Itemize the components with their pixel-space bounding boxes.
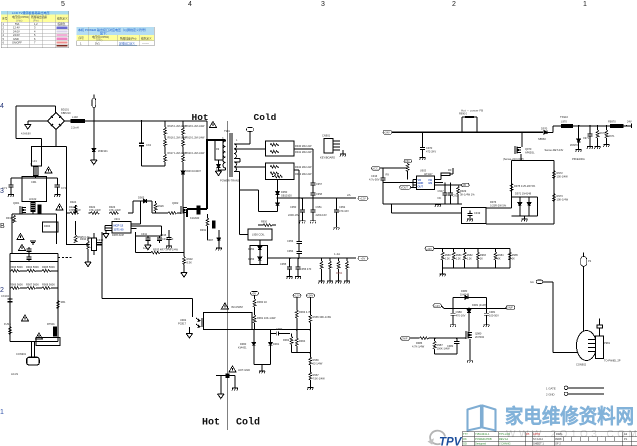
svg-text:R9: R9: [386, 173, 390, 177]
svg-text:C917: C917: [438, 189, 445, 193]
svg-text:R975 0.25-2W 5%: R975 0.25-2W 5%: [514, 184, 536, 188]
svg-text:R924: R924: [70, 200, 77, 204]
svg-text:1N4148: 1N4148: [460, 292, 470, 296]
grid number 1 left edge: [0, 409, 4, 416]
warning triangle W3: [17, 233, 24, 239]
svg-text:HOT-GND: HOT-GND: [238, 368, 250, 372]
svg-text:如下：: 如下：: [100, 31, 109, 36]
resistor R927: [386, 163, 410, 180]
svg-text:470-16V: 470-16V: [456, 314, 466, 318]
svg-text:D903 1N4007: D903 1N4007: [186, 170, 202, 173]
svg-text:R941 2R2-2W: R941 2R2-2W: [295, 150, 312, 154]
svg-text:100-1/4W: 100-1/4W: [557, 175, 569, 179]
resistor R972: [553, 160, 569, 193]
svg-text:5V1: 5V1: [95, 42, 100, 46]
wire IC right rail: [136, 226, 162, 253]
wire drain thick: [206, 121, 208, 140]
svg-text:U901: U901: [114, 218, 121, 221]
svg-text:4.7K-1/4W: 4.7K-1/4W: [412, 345, 425, 349]
svg-text:R919 1.2M-1/4W: R919 1.2M-1/4W: [186, 137, 206, 140]
svg-text:+24V: +24V: [384, 131, 390, 134]
svg-text:VOUT: VOUT: [401, 186, 409, 190]
wire pin2 left: [383, 181, 413, 183]
svg-text:2200-16V: 2200-16V: [288, 213, 300, 217]
ground GF10: [522, 216, 528, 221]
svg-text:SB10100: SB10100: [281, 194, 292, 198]
svg-text:1.2K: 1.2K: [467, 258, 472, 261]
svg-text:C958: C958: [316, 193, 323, 196]
resistor R981: [452, 249, 462, 268]
svg-text:C910: C910: [97, 238, 104, 242]
wire B+ rail: [65, 147, 67, 214]
resistor R932: [181, 209, 193, 277]
resistor R924: [70, 200, 77, 213]
svg-text:C980: C980: [456, 310, 463, 314]
svg-text:D907: D907: [207, 238, 214, 242]
separator wire: [227, 121, 229, 430]
svg-text:VCC: VCC: [373, 167, 378, 170]
svg-text:1: 1: [236, 139, 238, 142]
legend pin 2: [546, 392, 604, 397]
svg-text:GA: GA: [530, 280, 534, 284]
wire aux to 5V: [240, 186, 249, 235]
wire secondary top stub: [240, 132, 250, 145]
svg-text:APPR: APPR: [533, 432, 540, 436]
svg-text:ZD970: ZD970: [570, 143, 578, 147]
resistor R909: [4, 322, 11, 335]
warning triangle W4: [18, 244, 25, 250]
resistor R952: [327, 257, 333, 283]
transformer T901 core: [220, 129, 240, 183]
capacitor C953: [287, 239, 302, 251]
grid number 2 left edge: [0, 287, 4, 294]
resistor R983: [477, 249, 487, 268]
net label ON pill: [401, 336, 411, 340]
capacitor C960: [271, 327, 290, 336]
svg-text:ZNR101: ZNR101: [98, 149, 108, 153]
ground GF11: [340, 150, 346, 156]
svg-text:Q980: Q980: [475, 332, 482, 336]
resistor R906: [10, 283, 23, 290]
capacitor CX104: [1, 294, 13, 302]
svg-text:5: 5: [61, 1, 65, 8]
net label +12V bus: [347, 193, 368, 200]
resistor R987: [433, 337, 450, 354]
svg-text:2: 2: [452, 1, 456, 8]
svg-text:R972: R972: [557, 171, 564, 175]
svg-text:47K-1/4W: 47K-1/4W: [109, 208, 121, 212]
capacitor C951: [310, 197, 327, 223]
capacitor C915: [160, 230, 172, 248]
snubber loop2: [265, 163, 293, 179]
grid number 2 top: [452, 1, 456, 8]
net label GND pill: [400, 186, 414, 190]
net label +24V bus pill: [383, 130, 392, 134]
capacitor C918: [448, 182, 459, 204]
svg-text:L970: L970: [561, 120, 567, 124]
warning triangle W6: [35, 333, 42, 339]
wire bridge bottom to filter: [41, 130, 66, 147]
svg-text:线色定义: 线色定义: [57, 17, 68, 21]
ground GF13: [467, 339, 473, 363]
inductor L971: [608, 120, 632, 128]
junction square on separator: [216, 374, 235, 377]
svg-text:2A: 2A: [347, 193, 351, 197]
resistor R903: [10, 265, 23, 272]
svg-text:AC-IN: AC-IN: [11, 372, 18, 376]
svg-text:CM1: CM1: [31, 180, 37, 184]
svg-text:RT901: RT901: [47, 322, 55, 326]
wire 24V end: [623, 124, 632, 129]
warning triangle W7: [221, 303, 242, 309]
svg-text:P1: P1: [624, 437, 628, 441]
sense diode box: [512, 197, 538, 216]
IC U901 right pins: [131, 224, 152, 229]
transformer T901 secondary winding B: [234, 162, 240, 186]
svg-text:Designed: Designed: [475, 442, 487, 446]
svg-text:R961 10K-1/4W: R961 10K-1/4W: [257, 316, 276, 320]
wire gate bottom: [435, 353, 457, 355]
choke winding LF102a: [31, 202, 35, 212]
svg-text:2: 2: [0, 287, 4, 294]
svg-text:序号: 序号: [79, 36, 85, 40]
resistor R951: [319, 257, 325, 283]
diode D951 output rectifier: [276, 203, 280, 212]
fuse F101: [71, 115, 84, 130]
capacitor C981: [483, 308, 499, 327]
wire rectifier return: [240, 190, 278, 211]
svg-text:R920 1.2M-1/4W: R920 1.2M-1/4W: [186, 152, 206, 155]
svg-text:D961: D961: [273, 342, 280, 346]
varistor box RV901: [91, 233, 103, 255]
MOSFET Q902: [172, 201, 200, 220]
capacitor C906 electrolytic: [38, 205, 41, 214]
svg-text:1 GATE: 1 GATE: [546, 387, 556, 391]
wire sense top: [512, 154, 554, 224]
svg-text:CN901: CN901: [322, 134, 331, 138]
snubber loop1: [265, 141, 293, 156]
wire vcc top: [383, 167, 408, 169]
svg-text:CON901: CON901: [16, 352, 27, 356]
resistor R928 bar: [441, 168, 453, 180]
resistor R962: [283, 333, 310, 352]
jumper R990 loop: [459, 113, 477, 133]
svg-text:+12V: +12V: [294, 294, 300, 298]
svg-text:4.7u-50V: 4.7u-50V: [369, 178, 380, 182]
svg-text:序号: 序号: [2, 17, 8, 21]
capacitor C913 electrolytic: [197, 206, 200, 214]
svg-text:D981 (4148): D981 (4148): [472, 303, 487, 307]
svg-text:C951: C951: [316, 205, 323, 209]
svg-text:R954: R954: [336, 271, 343, 275]
resistor R966: [309, 357, 323, 372]
wire sense bottom: [66, 243, 88, 245]
wire ladder bottom: [142, 165, 165, 167]
svg-text:GND: GND: [13, 37, 19, 41]
dashed link wire: [58, 257, 72, 259]
svg-text:Hot ⇔ power FB: Hot ⇔ power FB: [461, 109, 483, 113]
svg-text:线色定义: 线色定义: [141, 37, 152, 41]
connector jack CON902: [576, 319, 621, 367]
svg-text:C971: C971: [583, 137, 590, 140]
svg-text:R907 560K: R907 560K: [26, 283, 39, 287]
ground GND1 arrow: [21, 121, 48, 136]
svg-text:2.2mH: 2.2mH: [71, 126, 79, 130]
warning triangle W1: [45, 167, 52, 173]
svg-text:P981: P981: [604, 341, 611, 345]
svg-text:C970: C970: [426, 146, 433, 150]
svg-text:24.0V: 24.0V: [13, 29, 20, 33]
svg-text:AP1117: AP1117: [424, 173, 433, 176]
resistor R901B: [164, 135, 187, 147]
transformer T901 secondary winding A: [234, 144, 240, 162]
svg-text:C911: C911: [141, 232, 148, 236]
svg-text:+12V: +12V: [434, 304, 440, 308]
svg-text:3: 3: [321, 1, 325, 8]
connector CN901: [320, 134, 340, 160]
svg-text:R973: R973: [557, 194, 564, 198]
svg-text:LF102: LF102: [29, 197, 37, 201]
svg-text:OF 2: OF 2: [555, 442, 561, 446]
wire X rails: [10, 254, 58, 271]
svg-text:C952: C952: [339, 205, 346, 209]
net label +5V bus: [334, 252, 368, 260]
capacitor C980: [450, 308, 466, 327]
capacitor C954: [287, 249, 302, 258]
svg-text:P6KE200A: P6KE200A: [572, 157, 585, 161]
junction dot bus12: [277, 197, 279, 199]
svg-text:PC817: PC817: [178, 322, 186, 326]
svg-text:D953: D953: [248, 257, 255, 261]
net label +12Vf: [293, 294, 301, 298]
svg-text:Hot: Hot: [192, 112, 209, 123]
zener D961: [269, 330, 280, 365]
svg-text:R967: R967: [313, 373, 320, 377]
diode D902: [181, 166, 201, 209]
opto box: [204, 312, 253, 329]
svg-text:FB970: FB970: [608, 120, 616, 124]
net label ON/OFF pill: [506, 306, 515, 310]
IC U901 PWM controller: [112, 218, 131, 237]
diode D907: [207, 230, 222, 250]
svg-text:BD101: BD101: [61, 108, 69, 112]
svg-text:715G3341-1: 715G3341-1: [475, 432, 490, 436]
resistor R973: [553, 194, 569, 225]
svg-text:DIP8-SOP: DIP8-SOP: [112, 233, 124, 237]
resistor R944: [272, 175, 283, 178]
svg-text:L950 COIL: L950 COIL: [252, 233, 265, 237]
svg-text:R906 560K: R906 560K: [10, 283, 23, 287]
capacitor C914 electrolytic: [212, 221, 215, 228]
resistor R950: [258, 221, 276, 227]
svg-text:D905: D905: [138, 196, 145, 200]
capacitor C970: [420, 131, 437, 159]
wire 24V out rail: [573, 125, 611, 127]
svg-text:T901: T901: [224, 129, 230, 133]
svg-text:C981: C981: [489, 310, 496, 314]
svg-text:D970: D970: [541, 127, 548, 131]
svg-text:Q970: Q970: [525, 147, 532, 151]
svg-text:C960: C960: [276, 327, 283, 331]
svg-text:EN: EN: [429, 181, 433, 185]
svg-text:D950: D950: [281, 190, 288, 194]
svg-text:R971: R971: [609, 135, 616, 138]
svg-text:4: 4: [188, 1, 192, 8]
svg-text:1: 1: [583, 1, 587, 8]
svg-text:P2: P2: [588, 259, 592, 263]
net label bank pill: [425, 247, 434, 251]
warning triangle W5: [21, 315, 28, 321]
svg-text:+24V: +24V: [426, 248, 432, 251]
transformer pin numbers: [216, 137, 238, 171]
svg-text:GND: GND: [418, 181, 424, 185]
diode D980: [453, 289, 486, 309]
IC U903 left pins: [413, 180, 416, 188]
inductor L970: [560, 115, 573, 127]
resistor R986: [410, 337, 466, 349]
ground GT2: [103, 230, 109, 238]
svg-text:AP65SL: AP65SL: [525, 151, 535, 155]
resistor R985: [508, 249, 518, 268]
diode D952: [248, 240, 262, 257]
svg-text:C957: C957: [316, 183, 323, 186]
resistor R933: [136, 248, 185, 255]
resistor R971: [604, 125, 616, 147]
diode D971: [518, 197, 522, 216]
svg-text:B: B: [0, 223, 5, 230]
wire rails mid: [10, 271, 58, 288]
ground GF12: [440, 268, 446, 277]
diode D970: [538, 126, 561, 141]
svg-text:--------: --------: [142, 43, 149, 46]
net label +24Vf: [307, 294, 315, 298]
svg-text:D960: D960: [240, 342, 247, 346]
svg-text:R976: R976: [490, 200, 497, 204]
svg-text:LCD TV邍源板各路输出电压: LCD TV邍源板各路输出电压: [12, 10, 50, 15]
legend pin 1: [546, 386, 604, 391]
svg-text:R926: R926: [158, 204, 165, 208]
svg-text:R905 560K: R905 560K: [42, 265, 55, 269]
capacitor CX102: [26, 247, 31, 254]
svg-text:C954: C954: [287, 249, 294, 253]
resistor R902A: [182, 121, 205, 135]
svg-text:R904 560K: R904 560K: [26, 265, 39, 269]
svg-text:1.2K: 1.2K: [445, 258, 450, 261]
MOSFET Q970: [515, 131, 535, 154]
grid number 3 left edge: [0, 188, 4, 195]
svg-text:KBP210: KBP210: [61, 111, 71, 115]
svg-text:ISO-PWM: ISO-PWM: [231, 305, 243, 309]
wire connector L: [543, 282, 578, 353]
svg-text:470-16V: 470-16V: [339, 209, 349, 213]
wire secondary A to snubber: [234, 149, 265, 162]
svg-text:本机 POWER 输出接口对应电压（以屏线定义符号）: 本机 POWER 输出接口对应电压（以屏线定义符号）: [78, 27, 148, 32]
svg-text:Sense-DET-24V: Sense-DET-24V: [545, 148, 564, 152]
svg-text:47K-1/4W: 47K-1/4W: [89, 208, 101, 212]
resistor R943: [270, 172, 312, 176]
svg-text:SB560: SB560: [538, 137, 546, 141]
opto ground arrow: [186, 327, 192, 338]
svg-text:棕褥色: 棕褥色: [58, 22, 66, 26]
svg-text:1.2K: 1.2K: [456, 258, 461, 261]
svg-text:CY2: CY2: [61, 186, 67, 190]
svg-text:C956 470: C956 470: [300, 267, 312, 271]
line filter box LF102: [22, 177, 46, 202]
net label pin pill vertical: [581, 253, 592, 267]
svg-text:Q902: Q902: [172, 201, 179, 205]
net label VIN pill: [372, 166, 381, 170]
svg-text:ON/OFF: ON/OFF: [12, 41, 22, 45]
svg-text:OUT: OUT: [418, 185, 424, 189]
choke winding LF101a: [30, 163, 38, 177]
zener D960: [238, 330, 256, 365]
resistor R960: [253, 295, 267, 312]
svg-text:R929: R929: [460, 189, 467, 193]
capacitor C952: [334, 197, 350, 229]
resistor R961: [253, 312, 276, 329]
resistor R907: [20, 283, 39, 290]
diode D906: [215, 160, 221, 176]
resistor R974: [510, 184, 536, 192]
svg-text:R966: R966: [313, 358, 320, 362]
wire bottom AC: [10, 340, 58, 342]
svg-text:R942 2R2-2W: R942 2R2-2W: [295, 165, 312, 169]
capacitor C971: [583, 125, 593, 149]
svg-text:D952: D952: [248, 247, 255, 251]
resistor R963: [295, 297, 311, 330]
svg-text:2200-16V: 2200-16V: [316, 213, 328, 217]
wire below filter: [12, 212, 57, 254]
cap box CN970: [462, 208, 487, 224]
svg-text:R911: R911: [6, 216, 13, 220]
wire zener bottom + ground: [254, 364, 271, 373]
svg-text:D971 1N4148: D971 1N4148: [515, 192, 532, 196]
svg-text:R933 4R7-JPW-1/4W: R933 4R7-JPW-1/4W: [153, 248, 178, 252]
IC U903 regulator: [416, 169, 434, 190]
net label FB pill: [458, 183, 469, 187]
svg-text:LF1: LF1: [33, 160, 38, 163]
wire feedback long: [102, 232, 193, 317]
svg-text:Cold: Cold: [236, 417, 260, 429]
svg-text:TPV-LCD: TPV-LCD: [499, 432, 510, 436]
svg-text:R987: R987: [437, 343, 444, 347]
wire reg ground bus: [383, 204, 462, 207]
zener ZD970: [570, 125, 585, 161]
resistor R934: [80, 237, 94, 267]
svg-text:62-1/4W: 62-1/4W: [313, 362, 323, 366]
svg-text:R934: R934: [80, 237, 87, 241]
aux winding resistor R931: [200, 214, 209, 240]
grid number 5 top: [61, 1, 65, 8]
capacitor C913b: [96, 243, 101, 245]
svg-text:+5V: +5V: [361, 256, 366, 260]
resistor R921: [69, 205, 81, 214]
svg-text:1.4A: 1.4A: [334, 252, 340, 256]
svg-text:SB1: SB1: [61, 300, 66, 304]
svg-text:R960 1K: R960 1K: [257, 300, 267, 304]
capacitor C950: [288, 197, 305, 223]
capacitor C956: [295, 257, 312, 279]
capacitor C916: [369, 168, 386, 204]
resistor R911: [6, 215, 16, 223]
resistor R910: [57, 298, 66, 309]
capacitor CY101: [2, 185, 14, 197]
net label +12V drive pill: [433, 304, 442, 308]
net label T-top pill: [247, 128, 254, 132]
resistor R967: [307, 372, 325, 390]
snubber box primary: [215, 140, 223, 160]
resistor R964: [295, 330, 305, 353]
